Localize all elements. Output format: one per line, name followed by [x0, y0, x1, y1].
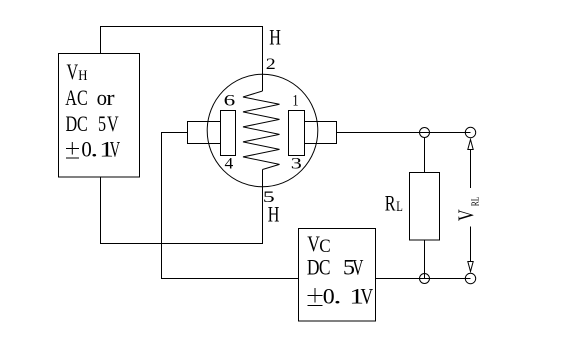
svg-text:H: H [78, 68, 87, 84]
VRL label (rotated) [455, 196, 481, 221]
resistor RL [410, 173, 440, 241]
svg-text:r: r [106, 86, 114, 111]
svg-text:V: V [352, 256, 363, 280]
VRL measurement arrow bottom [468, 227, 473, 272]
wire: heater pin 5 to VH bottom [101, 170, 263, 244]
svg-text:V: V [307, 232, 320, 257]
svg-text:1: 1 [292, 92, 298, 110]
junction node: RL bottom [420, 274, 430, 284]
svg-text:H: H [269, 26, 281, 50]
wire: RL bottom lead [424, 240, 426, 279]
junction node: RL top [420, 128, 430, 138]
svg-text:V: V [455, 209, 479, 221]
wire: left electrode to VC [162, 133, 300, 279]
svg-text:6: 6 [224, 92, 236, 109]
voltage source VC box [299, 229, 376, 322]
svg-text:H: H [268, 203, 280, 227]
svg-text:RL: RL [469, 196, 480, 206]
svg-text:RL: RL [385, 192, 403, 216]
left lead tab [188, 122, 221, 144]
VRL measurement arrow top [468, 140, 473, 189]
svg-text:DC: DC [307, 255, 331, 280]
terminal: VRL top [465, 127, 475, 137]
svg-text:V: V [361, 284, 374, 309]
svg-text:3: 3 [291, 156, 302, 173]
svg-text:4: 4 [225, 154, 234, 172]
wire: VH top to heater pin 2 [101, 27, 263, 92]
gas sensor U1 envelope [207, 74, 318, 187]
svg-text:AC: AC [65, 87, 87, 111]
svg-text:V: V [67, 61, 79, 85]
wire: RL top lead [424, 138, 426, 173]
right electrode (pins 1,3) [289, 111, 305, 156]
svg-text:.: . [90, 137, 98, 162]
svg-text:.: . [333, 284, 341, 308]
terminal: VRL bottom [465, 273, 475, 283]
right lead tab [305, 122, 337, 144]
wire: right electrode to RL top node [337, 132, 471, 134]
svg-text:DC5V: DC5V [66, 113, 119, 137]
left electrode (pins 6,4) [221, 111, 236, 156]
svg-text:2: 2 [266, 55, 276, 72]
wire: VC to RL bottom node [376, 278, 471, 280]
svg-text:V: V [110, 138, 121, 163]
heater element zigzag (pins 2-5) [243, 91, 280, 170]
svg-text:C: C [319, 235, 330, 256]
voltage source VH box [59, 54, 140, 178]
